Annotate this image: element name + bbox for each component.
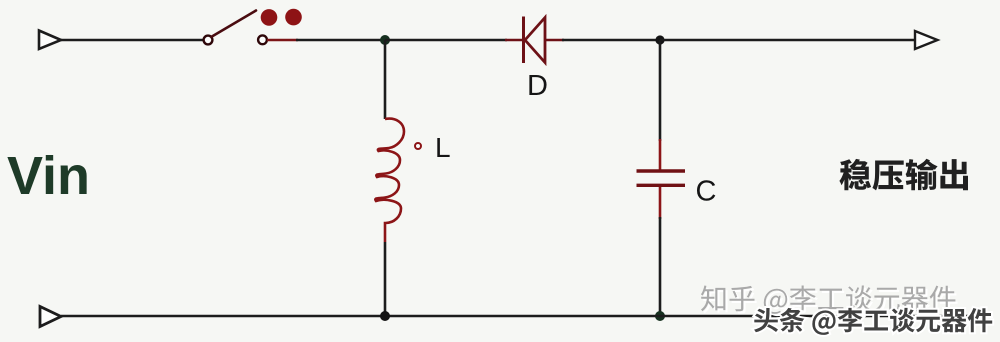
svg-text:D: D: [527, 70, 548, 102]
svg-text:Vin: Vin: [7, 146, 90, 206]
svg-text:C: C: [696, 176, 717, 208]
svg-text:L: L: [435, 132, 451, 163]
